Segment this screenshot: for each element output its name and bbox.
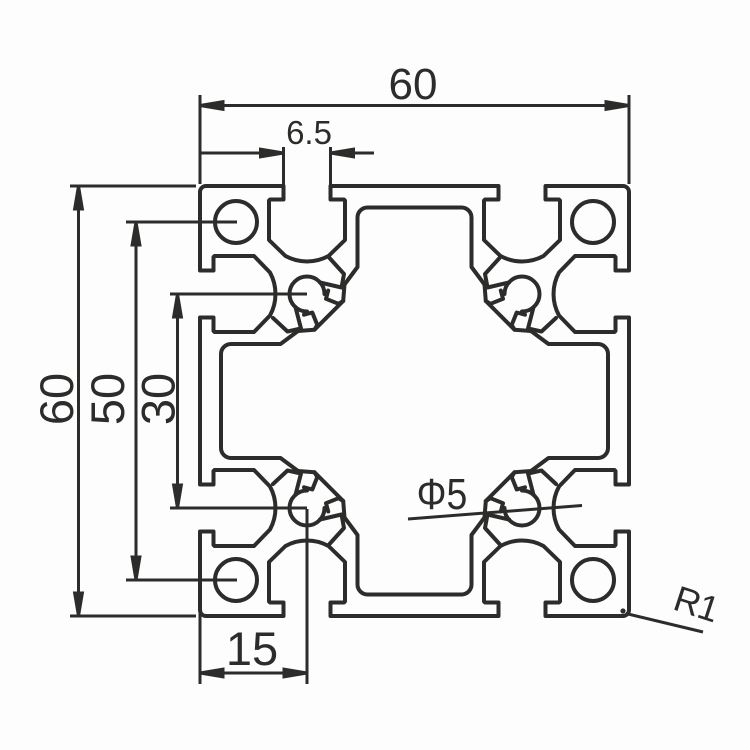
svg-text:60: 60 bbox=[30, 373, 83, 425]
svg-text:Φ5: Φ5 bbox=[417, 469, 468, 519]
svg-text:60: 60 bbox=[389, 60, 438, 109]
svg-text:15: 15 bbox=[226, 622, 278, 675]
svg-text:30: 30 bbox=[131, 373, 184, 425]
svg-text:6.5: 6.5 bbox=[286, 114, 332, 151]
svg-text:50: 50 bbox=[81, 373, 134, 425]
